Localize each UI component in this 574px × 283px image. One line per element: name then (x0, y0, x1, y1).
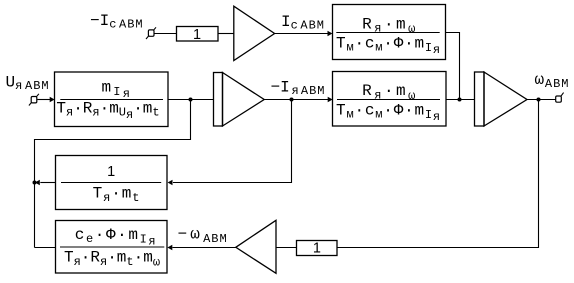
svg-text:1: 1 (313, 241, 321, 257)
svg-text:1: 1 (193, 27, 201, 43)
svg-text:1: 1 (107, 164, 115, 180)
